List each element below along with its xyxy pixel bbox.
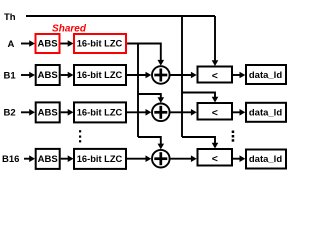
block data_ld D2 [246,103,286,122]
adder S1 [152,66,170,84]
svg-text:Shared: Shared [52,24,87,35]
wire Th horizontal bus [26,15,215,17]
comparator U2 [198,103,233,120]
block data_ld D1 [246,65,286,84]
node B16 label [2,154,19,165]
svg-text:ABS: ABS [38,70,58,81]
block ABS (shared, row A) [36,34,60,53]
comparator U3 [198,149,233,166]
wire ABS-B16 to LZC-B16 [61,155,74,162]
wire adder S2 to comparator U2 [171,109,197,116]
block 16-bit LZC (row B2) [74,102,126,122]
svg-text:ABS: ABS [37,39,57,50]
svg-text:data_ld: data_ld [249,70,282,81]
svg-text:B1: B1 [4,70,17,81]
wire B16 input arrow [24,155,35,162]
ellipsis dots (right column) [232,131,235,142]
wire comparator U2 to data_ld D2 [233,109,245,116]
comparator U1 [198,67,233,83]
wire ABS-A to LZC-A [61,40,74,47]
node A label [8,39,15,50]
wire LZC-B1 into adder S1 [127,72,151,79]
wire LZC-B2 into adder S2 [127,109,151,116]
wire Th drop into comparator U1 [212,16,219,66]
wire ABS-B1 to LZC-B1 [61,72,74,79]
wire A branch into adder S2 [138,94,164,103]
node B2 label [4,108,16,119]
svg-text:16-bit LZC: 16-bit LZC [77,70,123,80]
block ABS (row B16) [36,149,60,169]
wire comparator U1 to data_ld D1 [233,72,245,79]
adder S2 [152,104,170,122]
wire LZC-B16 into adder S3 [127,155,151,162]
svg-text:A: A [8,39,15,50]
block ABS (row B1) [36,65,60,85]
wire Th branch into comparator U3 [182,137,218,149]
wire A input arrow [21,40,35,47]
wire adder S1 to comparator U1 [171,72,197,79]
wire comparator U3 to data_ld D3 [233,155,245,162]
wire B2 input arrow [21,109,35,116]
wire A branch into adder S3 [138,137,164,149]
block 16-bit LZC (shared, row A) [74,34,126,53]
svg-text:<: < [212,107,218,119]
wire Th trunk down (right) [181,16,183,137]
label Shared [52,24,87,35]
svg-text:ABS: ABS [38,108,58,119]
svg-text:16-bit LZC: 16-bit LZC [77,108,123,118]
net label Th [4,12,16,23]
wire ABS-B2 to LZC-B2 [61,109,74,116]
adder S3 [152,150,170,168]
wire A LZC output into adder S1 [127,44,164,66]
svg-text:data_ld: data_ld [249,154,282,165]
svg-text:Th: Th [4,12,16,23]
svg-text:ABS: ABS [38,154,58,165]
block 16-bit LZC (row B16) [74,149,126,169]
svg-text:data_ld: data_ld [249,108,282,119]
svg-text:B2: B2 [4,108,16,119]
svg-text:16-bit LZC: 16-bit LZC [77,39,123,49]
svg-text:<: < [212,70,218,82]
ellipsis dots (left column) [79,130,81,142]
node B1 label [4,70,17,81]
block 16-bit LZC (row B1) [74,65,126,85]
block ABS (row B2) [36,102,60,122]
svg-text:<: < [212,153,218,165]
wire A trunk down (left) [137,44,139,138]
block data_ld D3 [246,150,286,169]
wire adder S3 to comparator U3 [171,155,197,162]
svg-text:B16: B16 [2,154,19,165]
wire B1 input arrow [21,72,35,79]
wire Th branch into comparator U2 [182,93,218,103]
svg-text:16-bit LZC: 16-bit LZC [77,154,123,164]
